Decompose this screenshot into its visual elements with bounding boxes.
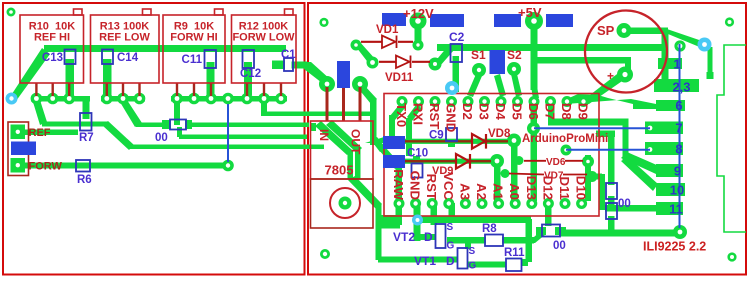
svg-text:7805: 7805 xyxy=(325,163,354,178)
svg-text:S: S xyxy=(469,246,476,257)
pad R12.2 xyxy=(258,93,270,105)
pad R13.2 xyxy=(117,93,129,105)
svg-text:1: 1 xyxy=(673,57,680,72)
svg-text:D: D xyxy=(446,254,455,268)
svg-text:C1: C1 xyxy=(281,49,296,61)
pad VD11 right xyxy=(429,58,442,71)
wire vertB xyxy=(531,106,538,201)
capacitor C2 symbol xyxy=(451,44,463,62)
pad S2 xyxy=(507,62,521,76)
pad VD6 left xyxy=(515,156,524,165)
svg-text:D2: D2 xyxy=(460,103,475,120)
wire D12 vert xyxy=(545,203,552,226)
pad R9.1 xyxy=(171,93,183,105)
pad VD9 right xyxy=(490,154,504,168)
wire VD6pad vert xyxy=(585,155,591,201)
wire stub pad R12.2 down xyxy=(261,101,267,116)
wire C2 trace xyxy=(453,56,460,92)
pad +12V xyxy=(410,13,427,30)
wire 7805 inner diag1 xyxy=(315,121,352,155)
wire VT1 G to R11 xyxy=(467,262,507,268)
wire VD7pad stub xyxy=(588,174,602,180)
svg-text:D6: D6 xyxy=(526,103,541,120)
transistor VT2 symbol xyxy=(436,224,446,248)
svg-text:+: + xyxy=(607,69,614,83)
wire stub pad R9.1 down xyxy=(174,101,180,125)
svg-text:RST: RST xyxy=(427,103,442,129)
wire 7805 out diag2 xyxy=(370,137,386,152)
wire +5V vertical xyxy=(531,21,538,90)
wire into C9 area xyxy=(365,137,384,143)
7805 pin stubs xyxy=(327,64,360,121)
svg-text:R6: R6 xyxy=(77,174,92,186)
wire elbow to SP+ pad xyxy=(625,60,631,75)
via right top xyxy=(725,17,734,26)
svg-text:00: 00 xyxy=(618,198,631,210)
pad 11 xyxy=(656,202,683,215)
transistor VT1 symbol xyxy=(458,248,468,269)
wire diagonal from cyan input pad to top bus xyxy=(8,48,50,101)
wire diag to pad10 xyxy=(621,157,658,191)
svg-text:D3: D3 xyxy=(477,103,492,120)
capacitor C14 trace xyxy=(103,59,112,95)
svg-text:A0: A0 xyxy=(507,183,522,200)
wire +5V to D6 xyxy=(531,86,539,99)
svg-text:R11: R11 xyxy=(504,247,525,259)
capacitor C11 symbol xyxy=(205,50,217,68)
pad 9 xyxy=(656,164,683,177)
svg-text:C10: C10 xyxy=(407,148,428,160)
wire L1 band y122 xyxy=(548,119,629,126)
resistor R8 symbol xyxy=(485,235,503,247)
pads arduino bottom row RAW GND RST VCC A3..D10 xyxy=(394,198,588,209)
wire C10 stub xyxy=(413,156,420,165)
pin labels arduino bottom xyxy=(391,169,589,200)
pad cyan gnd xyxy=(412,215,423,226)
regulator mount outline xyxy=(311,179,374,228)
svg-text:00: 00 xyxy=(155,132,168,144)
wire diag pad R10.1 down xyxy=(33,100,47,125)
wire 00mid right stub xyxy=(555,227,566,235)
svg-text:A3: A3 xyxy=(457,183,472,200)
trimmer R12 outline xyxy=(232,15,297,83)
svg-text:S: S xyxy=(447,222,454,233)
node ring sp xyxy=(674,40,685,51)
svg-text:C2: C2 xyxy=(449,30,465,44)
wire VD9 pad down xyxy=(494,161,501,201)
svg-text:VD8: VD8 xyxy=(488,128,511,140)
svg-text:D7: D7 xyxy=(543,103,558,120)
svg-text:+12V: +12V xyxy=(403,6,434,21)
smd rect arduino left1 xyxy=(383,136,405,149)
wire trace y60 to SP+ xyxy=(534,57,631,64)
trimmer pin stubs xyxy=(36,83,281,96)
speaker SP circle xyxy=(585,11,667,93)
node bar R13 pads xyxy=(101,96,145,102)
wire VCC vert xyxy=(449,203,456,223)
svg-text:D11: D11 xyxy=(557,177,572,200)
wire top bus y=48.5 xyxy=(44,45,286,52)
svg-text:A1: A1 xyxy=(491,183,506,200)
wire elbow R8 to 00 xyxy=(529,230,546,243)
svg-text:A2: A2 xyxy=(474,183,489,200)
pad VD8 right xyxy=(507,134,521,148)
pad R10.3 xyxy=(63,93,75,105)
capacitor C12 symbol xyxy=(243,50,255,68)
resistor R6 symbol xyxy=(76,160,90,172)
pad 2,3 xyxy=(654,79,699,92)
svg-text:GND: GND xyxy=(408,171,423,200)
capacitor C9 symbol xyxy=(446,128,457,141)
pad 7 xyxy=(645,122,683,135)
wire SP pad right xyxy=(629,28,668,35)
capacitor C10 symbol xyxy=(412,164,423,178)
wire trace y123.5 left xyxy=(42,122,108,127)
capacitor C14 symbol xyxy=(102,50,113,65)
wire stub pad11 xyxy=(605,205,656,212)
resistor 00 left symbol xyxy=(170,120,186,130)
wire link VD7 xyxy=(509,174,587,175)
op module ArduinoProMini outline xyxy=(384,94,599,217)
wire RXI vert xyxy=(406,118,412,156)
svg-text:C14: C14 xyxy=(117,52,139,64)
wire vertA xyxy=(511,140,518,201)
svg-text:D12: D12 xyxy=(540,176,555,200)
pad +5V xyxy=(525,12,543,30)
svg-text:VD6: VD6 xyxy=(546,157,566,168)
svg-text:VD1: VD1 xyxy=(376,24,399,36)
svg-text:VT2: VT2 xyxy=(393,230,415,244)
resistor 00b right symbol xyxy=(606,203,617,219)
wire trace y114 xyxy=(261,112,373,117)
wire jog into right board xyxy=(310,123,316,131)
svg-text:D8: D8 xyxy=(559,103,574,120)
wire VD7pad vert xyxy=(599,174,605,210)
smd rect top2 xyxy=(430,14,464,27)
wire diag pad R13.2 down xyxy=(120,100,142,127)
svg-text:+5V: +5V xyxy=(518,5,542,20)
node bar R9-R12 pads xyxy=(171,96,287,102)
svg-text:RXI: RXI xyxy=(411,103,426,125)
wire link VD6 xyxy=(524,160,583,162)
wire TX0 vert xyxy=(389,115,395,137)
svg-text:RST: RST xyxy=(424,174,439,200)
connector REF/FORW outline xyxy=(8,122,29,176)
resistor R7 symbol xyxy=(80,113,92,131)
capacitor C12 trace xyxy=(244,62,252,95)
svg-text:00: 00 xyxy=(553,240,566,252)
wire R11 right stub xyxy=(520,259,528,266)
pad cyan left xyxy=(6,93,18,105)
svg-text:R8: R8 xyxy=(482,223,497,235)
svg-text:OUT: OUT xyxy=(349,129,363,155)
pad number labels xyxy=(669,57,690,217)
pad 6 xyxy=(656,100,685,111)
capacitor C13 symbol xyxy=(65,50,76,65)
wire REF to R7 xyxy=(20,130,78,136)
wire 7805 exit diag xyxy=(348,176,382,209)
capacitor C11 trace xyxy=(207,62,215,95)
pad R9.2 xyxy=(188,93,200,105)
wire diag to pad9 xyxy=(621,152,659,174)
svg-text:10: 10 xyxy=(670,183,684,198)
wire 7805 inner diag2 xyxy=(326,120,362,153)
wire link tft column xyxy=(679,44,681,228)
pads arduino top row TX0 RXI RST GND D2..D9 xyxy=(397,96,590,107)
wire trace y136.5 xyxy=(179,135,307,140)
wire 7805 to RAW diag xyxy=(379,148,401,169)
pad 10 xyxy=(656,183,685,196)
via bottomleft xyxy=(320,249,330,259)
pad VD7 left xyxy=(501,169,510,178)
resistor 00 mid symbol xyxy=(542,225,560,237)
svg-text:FORW: FORW xyxy=(29,161,63,173)
wire cyan stub down xyxy=(708,47,713,76)
wire D7 stub xyxy=(548,102,555,122)
svg-text:6: 6 xyxy=(675,98,682,113)
diode VD1 xyxy=(361,41,413,43)
wire S1 diag xyxy=(467,74,482,97)
wire C1 left stub xyxy=(272,61,285,70)
pad REF square xyxy=(11,125,26,140)
pad 7805.1 xyxy=(319,76,335,92)
pad 7805.3 xyxy=(352,76,368,92)
node ring VD11 left xyxy=(367,57,379,69)
wire VT2 D stub xyxy=(419,234,436,240)
wire link line1 xyxy=(534,127,650,129)
diode VD11 xyxy=(379,61,430,63)
pad R13.1 xyxy=(101,93,113,105)
wire link FORW xyxy=(227,104,229,162)
smd rect below REF xyxy=(11,142,36,156)
svg-text:SP: SP xyxy=(597,23,615,38)
wire VT1 D trace xyxy=(378,257,458,263)
smd rect arduino left2 xyxy=(383,155,405,168)
node bar R10 pads xyxy=(31,96,90,102)
node pad blue line2 xyxy=(561,145,572,156)
svg-text:D4: D4 xyxy=(493,103,508,121)
smd rect S1S2 xyxy=(490,50,506,74)
regulator 7805 outline xyxy=(311,121,374,179)
wire main +5V bus y47.5 xyxy=(437,44,667,51)
svg-text:2,3: 2,3 xyxy=(672,80,690,95)
svg-text:RAW: RAW xyxy=(391,169,406,200)
pad 7805 mount xyxy=(339,197,352,210)
pad mid xyxy=(222,93,234,105)
wire VD9 green xyxy=(404,159,492,164)
svg-text:S2: S2 xyxy=(507,48,522,62)
svg-text:REF: REF xyxy=(29,127,51,139)
wire VD8 green xyxy=(404,139,508,144)
pad FORW square xyxy=(11,158,26,173)
svg-text:C11: C11 xyxy=(182,54,203,66)
resistor 00a right symbol xyxy=(606,183,617,199)
wire +12V stack xyxy=(415,21,422,45)
wire TX0 diag xyxy=(390,105,405,120)
wire 7805 out vert xyxy=(370,99,377,145)
svg-text:FORW LOW: FORW LOW xyxy=(232,32,295,44)
wire L1 vert xyxy=(623,122,629,160)
svg-text:8: 8 xyxy=(675,142,682,157)
node ring FORW end xyxy=(222,160,234,172)
wire vert x529 xyxy=(526,219,533,262)
svg-text:S1: S1 xyxy=(471,48,486,62)
wire link line2 xyxy=(566,149,650,151)
wire trace y219.5 xyxy=(421,217,531,224)
pin labels arduino top xyxy=(394,103,591,132)
pad SP+ xyxy=(617,67,633,83)
svg-text:ILI9225 2.2: ILI9225 2.2 xyxy=(643,240,706,254)
pad R12.3 xyxy=(275,93,287,105)
svg-text:D: D xyxy=(424,230,433,244)
wire C9 stub xyxy=(448,141,455,147)
diode VD9 xyxy=(403,160,491,162)
pad cyan C2 xyxy=(445,81,459,95)
smd rect top3 xyxy=(494,14,521,27)
via right bottom xyxy=(727,252,736,261)
wire 00L stubs xyxy=(162,120,171,129)
wire C1 right stub to right board xyxy=(292,62,308,69)
svg-text:VCC: VCC xyxy=(441,172,456,200)
diode VD8 xyxy=(403,140,508,142)
svg-text:VD11: VD11 xyxy=(385,72,414,84)
svg-text:D5: D5 xyxy=(510,103,525,120)
wire RAW elbow left xyxy=(376,222,400,229)
wire FORW trace xyxy=(20,163,228,169)
wire diag VD1 pad to ring xyxy=(353,41,376,65)
svg-text:VT1: VT1 xyxy=(414,254,436,268)
wire diag 7805 in xyxy=(304,62,331,86)
board outline left xyxy=(3,3,305,275)
wire vert x378 xyxy=(376,204,382,260)
pad S1 xyxy=(472,63,486,77)
pad VD7 right xyxy=(587,171,598,182)
svg-text:FORW HI: FORW HI xyxy=(170,32,217,44)
pad R12.1 xyxy=(241,93,253,105)
pad VD1 left xyxy=(351,40,362,51)
svg-text:C12: C12 xyxy=(240,68,261,80)
svg-text:IN: IN xyxy=(317,129,331,141)
wire VD11 pad to +5V bus xyxy=(432,46,454,66)
wire diag to cyan via xyxy=(664,28,705,48)
pad 1 xyxy=(658,58,682,69)
svg-text:REF LOW: REF LOW xyxy=(99,32,150,44)
wire trace y146.5 xyxy=(128,145,324,150)
pad R9.3 xyxy=(205,93,217,105)
wire RAW down xyxy=(396,203,403,225)
pad R13.3 xyxy=(134,93,146,105)
svg-text:REF HI: REF HI xyxy=(34,32,70,44)
wire RST vert xyxy=(431,203,438,225)
capacitor C13 trace xyxy=(66,59,75,95)
svg-text:D10: D10 xyxy=(574,176,589,200)
wire D8 to pad6 xyxy=(566,94,656,109)
svg-text:GND: GND xyxy=(444,103,459,132)
pad holes misc xyxy=(9,10,682,234)
svg-text:R7: R7 xyxy=(79,132,94,144)
node pad blue line1 xyxy=(527,122,540,135)
pad cyan sp xyxy=(698,38,712,52)
svg-text:7: 7 xyxy=(675,121,682,136)
trimmer R13 outline xyxy=(91,15,160,83)
wire RXI diag xyxy=(407,105,422,121)
wire S2 diag xyxy=(511,74,522,97)
pad R10.1 xyxy=(31,93,43,105)
wire diag down mid xyxy=(102,121,134,150)
wire bottomleft corner trace xyxy=(376,215,401,222)
mount hole circle xyxy=(330,188,360,218)
wire R7 stub xyxy=(83,100,90,119)
svg-text:9: 9 xyxy=(674,164,681,179)
trimmer R9 outline xyxy=(163,15,225,83)
wire vert to pads 1,23 xyxy=(662,31,669,82)
wire RAW vert up xyxy=(396,164,403,204)
wire trace y124.5 right xyxy=(190,123,309,128)
wire trace y124.5 mid xyxy=(136,123,164,128)
connector outline tft xyxy=(717,45,746,232)
wire below 00 xyxy=(608,216,615,233)
board outline right xyxy=(308,3,746,275)
wire L2 band y133.5 xyxy=(596,131,615,138)
wire 7805 inner vert2 xyxy=(355,148,361,179)
pad R10.2 xyxy=(47,93,59,105)
svg-text:11: 11 xyxy=(669,202,683,217)
capacitor C1 symbol xyxy=(284,58,293,71)
pad top-left mount xyxy=(7,8,16,17)
wire L2 vert xyxy=(608,133,615,185)
wire D9 to SP+ xyxy=(581,71,628,104)
wire 00L to y136.5 xyxy=(177,127,182,137)
svg-text:ArduinoProMini: ArduinoProMini xyxy=(522,133,608,145)
svg-text:D9: D9 xyxy=(576,103,591,120)
pad VD6 right xyxy=(582,156,594,168)
svg-text:G: G xyxy=(447,241,455,252)
wire VT2 G to R8 xyxy=(447,237,486,244)
svg-text:G: G xyxy=(469,261,477,272)
smd rect top4 xyxy=(546,14,573,27)
wire GND vert down xyxy=(414,203,421,241)
wire VT1 S stub xyxy=(465,240,471,249)
pad SP xyxy=(617,23,632,38)
wire 7805 out diag xyxy=(357,85,377,104)
trimmer R10 outline xyxy=(20,15,84,83)
wire R8 right xyxy=(502,237,534,244)
smd rect 7805 mid xyxy=(337,61,350,88)
pad ILI end xyxy=(673,225,687,239)
wire 00mid left stub xyxy=(536,227,546,235)
smd rect top1 xyxy=(382,13,406,26)
wire 7805 inner vert1 xyxy=(348,150,354,179)
svg-text:C9: C9 xyxy=(429,130,444,142)
pad +12V lower xyxy=(413,40,424,51)
via top xyxy=(319,18,328,27)
wire between 00 resistors xyxy=(608,196,615,206)
svg-text:D13: D13 xyxy=(524,176,539,200)
pad 8 xyxy=(645,142,683,155)
resistor R11 symbol xyxy=(506,259,522,272)
wire bottom band y233 xyxy=(559,230,678,237)
wire D4 diag xyxy=(494,74,506,97)
svg-text:C13: C13 xyxy=(42,52,63,64)
svg-text:TX0: TX0 xyxy=(394,103,409,127)
